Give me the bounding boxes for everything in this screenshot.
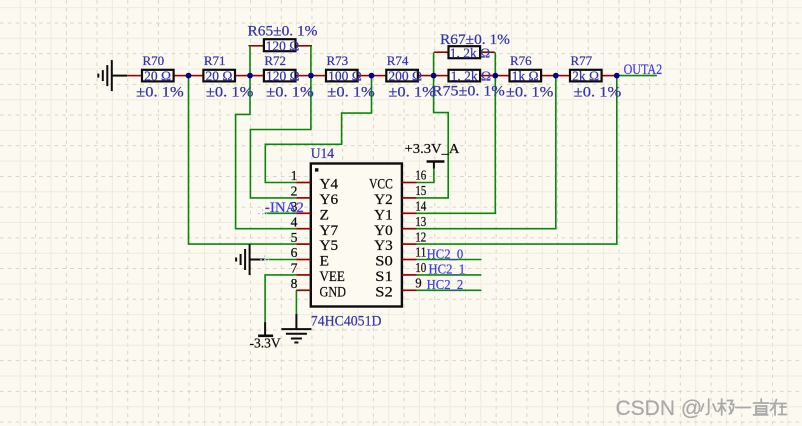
svg-text:4: 4 — [291, 214, 298, 229]
svg-text:2: 2 — [291, 184, 298, 199]
svg-text:CSDN @: CSDN @ — [616, 397, 703, 420]
svg-text:120 Ω: 120 Ω — [266, 68, 300, 83]
svg-text:HC2_0: HC2_0 — [427, 247, 464, 262]
svg-text:GND: GND — [320, 284, 347, 300]
svg-text:Y5: Y5 — [320, 238, 339, 254]
svg-text:+3.3V_A: +3.3V_A — [405, 142, 461, 157]
svg-text:-3.3V: -3.3V — [250, 336, 281, 351]
svg-text:Y4: Y4 — [320, 177, 339, 193]
svg-text:10: 10 — [415, 260, 426, 275]
svg-text:7: 7 — [291, 261, 298, 276]
svg-text:5: 5 — [291, 230, 298, 245]
svg-text:S2: S2 — [375, 284, 393, 300]
svg-text:74HC4051D: 74HC4051D — [311, 313, 382, 329]
svg-text:E: E — [320, 254, 330, 270]
svg-text:VEE: VEE — [320, 269, 345, 285]
svg-text:R67±0. 1%: R67±0. 1% — [440, 32, 510, 48]
svg-text:R74: R74 — [387, 53, 409, 68]
svg-text:13: 13 — [415, 214, 426, 229]
svg-text:Y0: Y0 — [374, 223, 393, 239]
svg-text:Z: Z — [320, 207, 330, 223]
svg-text:Y1: Y1 — [374, 207, 393, 223]
svg-text:U14: U14 — [311, 146, 335, 162]
svg-text:6: 6 — [291, 245, 298, 260]
svg-text:R70: R70 — [142, 53, 164, 68]
svg-text:±0. 1%: ±0. 1% — [206, 85, 254, 101]
svg-text:S0: S0 — [375, 254, 393, 270]
svg-text:1. 2k Ω: 1. 2k Ω — [451, 68, 491, 83]
svg-text:±0. 1%: ±0. 1% — [506, 85, 554, 101]
svg-text:8: 8 — [291, 276, 298, 291]
svg-text:-INA2: -INA2 — [265, 200, 304, 216]
svg-text:1: 1 — [291, 168, 298, 183]
svg-text:±0. 1%: ±0. 1% — [266, 85, 314, 101]
svg-text:200 Ω: 200 Ω — [388, 68, 422, 83]
svg-text:OUTA2: OUTA2 — [624, 62, 663, 78]
svg-text:±0. 1%: ±0. 1% — [136, 85, 184, 101]
svg-text:Y7: Y7 — [320, 223, 339, 239]
svg-text:R65±0. 1%: R65±0. 1% — [248, 23, 318, 39]
svg-text:±0. 1%: ±0. 1% — [388, 85, 436, 101]
svg-text:R75±0. 1%: R75±0. 1% — [432, 84, 505, 100]
svg-text:2k Ω: 2k Ω — [572, 68, 599, 83]
svg-text:120 Ω: 120 Ω — [266, 39, 300, 54]
svg-text:15: 15 — [415, 183, 426, 198]
svg-text:11: 11 — [415, 245, 426, 260]
svg-text:R71: R71 — [204, 53, 226, 68]
svg-text:R77: R77 — [570, 53, 592, 68]
svg-text:±0. 1%: ±0. 1% — [327, 85, 375, 101]
svg-text:16: 16 — [415, 168, 426, 183]
svg-text:Y6: Y6 — [320, 192, 339, 208]
svg-text:1k Ω: 1k Ω — [512, 68, 539, 83]
svg-text:±0. 1%: ±0. 1% — [574, 85, 622, 101]
svg-text:12: 12 — [415, 229, 426, 244]
svg-text:R73: R73 — [326, 53, 348, 68]
svg-text:9: 9 — [415, 276, 422, 291]
svg-text:14: 14 — [415, 199, 426, 214]
svg-text:S1: S1 — [375, 269, 393, 285]
svg-text:Y2: Y2 — [374, 192, 393, 208]
svg-text:100 Ω: 100 Ω — [328, 68, 362, 83]
svg-text:VCC: VCC — [369, 177, 393, 193]
svg-text:R72: R72 — [264, 53, 286, 68]
svg-text:R76: R76 — [510, 53, 532, 68]
svg-text:HC2_2: HC2_2 — [427, 278, 464, 293]
svg-text:20 Ω: 20 Ω — [144, 68, 171, 83]
svg-text:20 Ω: 20 Ω — [206, 68, 233, 83]
svg-text:Y3: Y3 — [374, 238, 393, 254]
svg-text:HC2_1: HC2_1 — [429, 263, 466, 278]
